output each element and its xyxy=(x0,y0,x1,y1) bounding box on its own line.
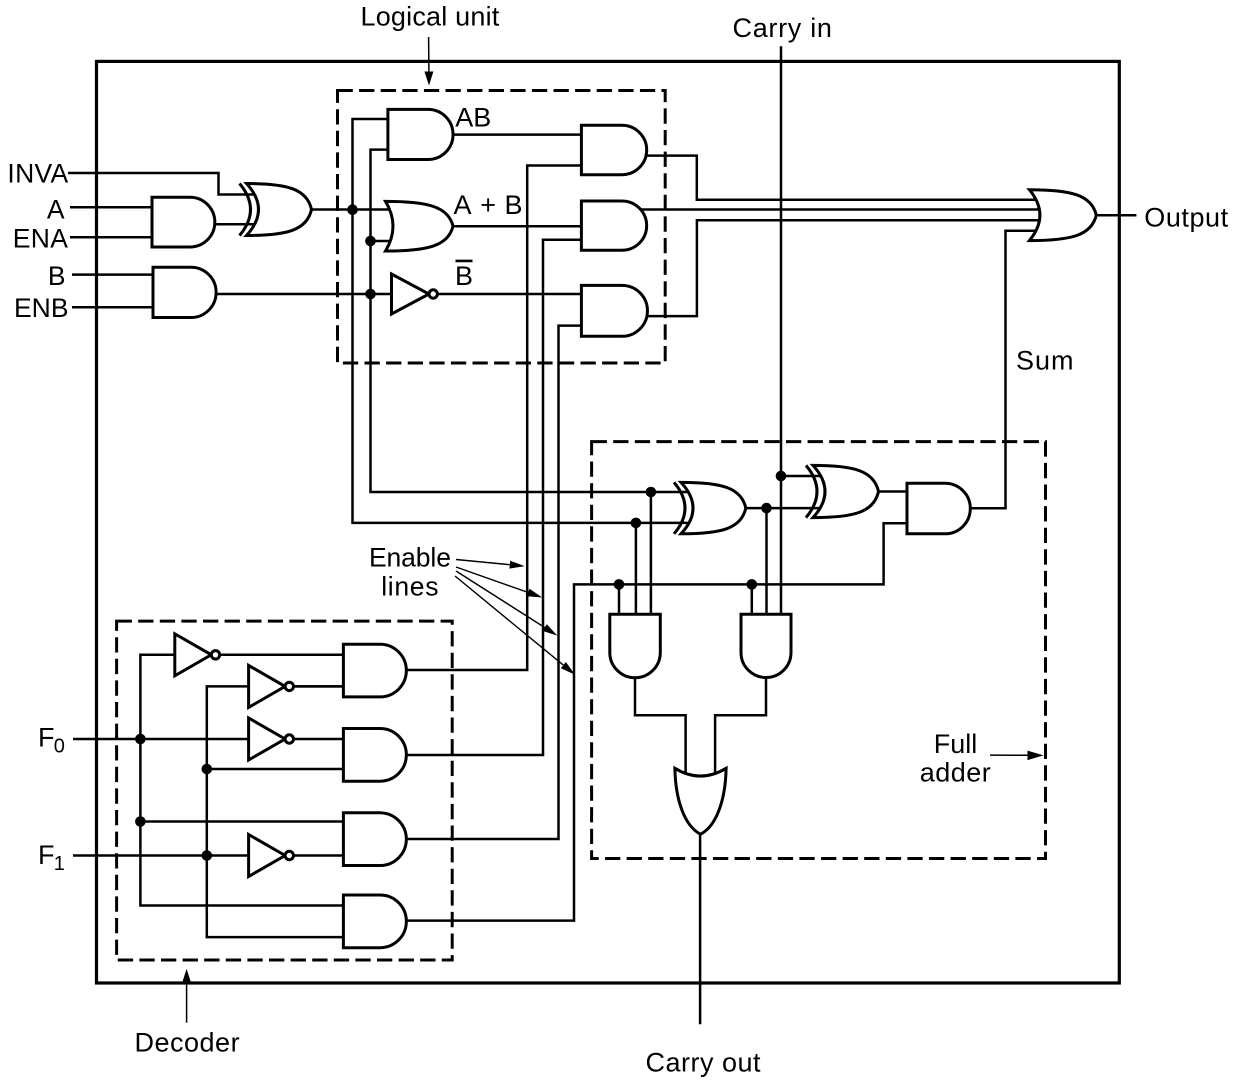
svg-text:Decoder: Decoder xyxy=(135,1028,241,1058)
svg-text:Logical unit: Logical unit xyxy=(361,2,500,32)
svg-text:F: F xyxy=(38,840,55,870)
svg-text:A: A xyxy=(454,190,472,220)
svg-text:0: 0 xyxy=(54,735,65,757)
svg-text:Full: Full xyxy=(934,729,978,759)
svg-text:Enable: Enable xyxy=(369,543,451,573)
svg-text:Carry in: Carry in xyxy=(733,13,833,43)
svg-text:B: B xyxy=(455,261,473,291)
svg-text:ENB: ENB xyxy=(14,293,69,323)
svg-text:adder: adder xyxy=(920,758,992,788)
svg-text:F: F xyxy=(38,722,55,752)
svg-text:B: B xyxy=(48,261,66,291)
svg-text:Output: Output xyxy=(1144,202,1228,232)
svg-text:Sum: Sum xyxy=(1016,345,1075,375)
svg-text:Carry out: Carry out xyxy=(646,1047,762,1077)
svg-text:1: 1 xyxy=(54,853,65,875)
svg-text:ENA: ENA xyxy=(13,223,68,253)
svg-text:INVA: INVA xyxy=(7,159,68,189)
svg-text:B: B xyxy=(505,190,523,220)
svg-text:A: A xyxy=(47,194,65,224)
svg-text:+: + xyxy=(480,190,496,220)
svg-text:AB: AB xyxy=(455,103,491,133)
svg-text:lines: lines xyxy=(381,571,439,601)
